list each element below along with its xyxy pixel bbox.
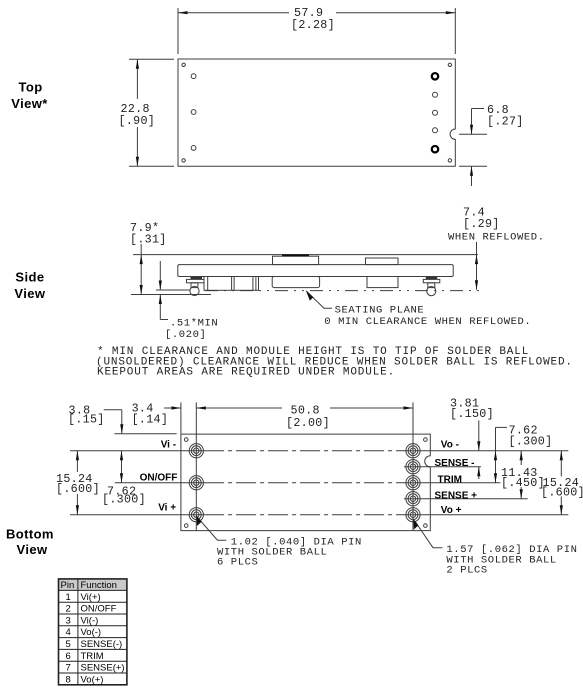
svg-text:Vo(+): Vo(+): [81, 674, 104, 685]
arrow 7.4 down: [475, 280, 478, 290]
svg-text:WHEN REFLOWED.: WHEN REFLOWED.: [448, 232, 545, 244]
arrowheads: [76, 11, 563, 529]
arrow 22.8 up: [136, 59, 139, 68]
left pin flange: [187, 279, 205, 282]
svg-text:Vi(-): Vi(-): [81, 615, 99, 626]
arrow 7.62 left down: [120, 473, 123, 483]
svg-text:Bottom: Bottom: [6, 527, 54, 542]
dim 50.8 segment A: [164, 407, 181, 409]
svg-text:3: 3: [66, 615, 71, 626]
pin 4 circles: [406, 444, 420, 458]
svg-text:[.29]: [.29]: [463, 217, 500, 231]
arrow 50.8 right: [404, 406, 414, 409]
svg-text:[.600]: [.600]: [541, 486, 583, 500]
dim 15.24 right upper shaft: [560, 451, 562, 477]
corner hole top-right: [448, 63, 451, 66]
dim 6.8 extension line at bottom edge: [459, 165, 487, 167]
left pin head: [191, 277, 203, 279]
bv corner hole bottom-left: [184, 524, 188, 528]
svg-text:6 PLCS: 6 PLCS: [217, 557, 258, 569]
arrow 11.43 up: [520, 451, 523, 461]
left edge extension line: [180, 402, 182, 433]
leader line pin Vi+: [198, 518, 227, 541]
dim 7.62 right elbow: [496, 426, 508, 428]
arrow 15.24 left down: [76, 505, 79, 515]
bottom component 4: [367, 277, 398, 288]
svg-text:Vi +: Vi +: [158, 503, 176, 514]
dim 7.62 left shaft: [121, 451, 123, 483]
dim 11.43 lower shaft: [520, 487, 522, 499]
arrow 7.4 up: [475, 255, 478, 265]
arrow 15.24 right up: [560, 451, 563, 461]
left column center line: [195, 402, 197, 530]
dim 22.8 line lower segment: [136, 127, 138, 166]
bottom component block: [204, 277, 259, 291]
svg-text:[.15]: [.15]: [68, 413, 105, 427]
svg-text:View: View: [14, 286, 45, 301]
top edge extension line: [114, 433, 176, 435]
svg-text:[.90]: [.90]: [119, 114, 156, 128]
svg-text:View: View: [17, 542, 48, 557]
pin 3 circles: [189, 508, 203, 522]
arrow seating leader: [306, 291, 313, 301]
svg-text:2 PLCS: 2 PLCS: [446, 565, 487, 577]
right pin hole 2: [433, 92, 438, 97]
right pin hole 3: [433, 110, 438, 115]
dim 15.24 left upper shaft: [76, 451, 78, 472]
svg-text:[2.00]: [2.00]: [286, 416, 330, 430]
top component 1: [273, 256, 319, 264]
svg-text:Pin: Pin: [61, 580, 75, 591]
pin 1 circles: [189, 444, 203, 458]
dim 22.8 line upper segment: [136, 59, 138, 99]
svg-text:Function: Function: [81, 580, 117, 591]
arrow 57.9 right: [446, 11, 456, 14]
svg-text:2: 2: [66, 604, 71, 615]
arrow 50.8 left: [196, 406, 206, 409]
corner hole bottom-left: [182, 159, 185, 162]
left pin hole 3: [191, 146, 196, 151]
dim 57.9 extension line left: [177, 8, 179, 54]
right solder ball: [427, 287, 436, 296]
arrow 57.9 left: [178, 11, 188, 14]
svg-text:SENSE -: SENSE -: [435, 458, 475, 469]
block divider 2a: [252, 277, 254, 291]
dim 7.62 right shaft: [495, 427, 497, 482]
dim 3.8 shaft: [121, 410, 123, 434]
right pin shaft: [428, 283, 435, 288]
arrow 7.9 down: [140, 285, 143, 295]
arrow leader Vi+: [197, 516, 202, 527]
dim 50.8 segment C: [330, 407, 413, 409]
dim 0.51 lower shaft: [159, 295, 161, 320]
pin 5 circles: [406, 460, 420, 474]
svg-text:[.300]: [.300]: [102, 493, 146, 507]
left solder ball: [190, 286, 199, 295]
block divider 1b: [233, 277, 235, 291]
dim 22.8 extension line top: [129, 58, 174, 60]
svg-text:Vi(+): Vi(+): [81, 592, 101, 603]
svg-text:TRIM: TRIM: [81, 651, 104, 662]
svg-text:[.020]: [.020]: [165, 329, 206, 341]
row4 line: [404, 498, 528, 500]
seating plane leader line: [306, 291, 332, 309]
svg-text:[.600]: [.600]: [56, 482, 100, 496]
top component 2: [366, 258, 399, 265]
arrow 0.51 down: [159, 281, 162, 291]
svg-text:0 MIN CLEARANCE WHEN REFLOWED.: 0 MIN CLEARANCE WHEN REFLOWED.: [324, 316, 531, 328]
bottom view body outline with notch: [181, 434, 430, 530]
svg-text:[2.28]: [2.28]: [291, 18, 335, 32]
arrow 0.51 up: [159, 295, 162, 305]
svg-text:1: 1: [66, 592, 71, 603]
pin 8 circles: [406, 508, 420, 522]
pin 7 circles: [406, 492, 420, 506]
dim 3.8 elbow: [104, 409, 122, 411]
bottom component 3: [272, 277, 319, 288]
arrow 22.8 down: [136, 157, 139, 167]
row3 line left: [115, 482, 204, 484]
dim 57.9 line left segment: [178, 12, 289, 14]
svg-text:Top: Top: [19, 80, 43, 95]
corner hole top-left: [182, 63, 185, 66]
table column divider: [77, 579, 79, 685]
top component 1 raised strip: [282, 254, 309, 256]
left pin shaft: [191, 283, 198, 288]
row3 line right: [405, 482, 500, 484]
pin 6 circles: [406, 476, 420, 490]
dim 57.9 extension line right: [454, 8, 456, 54]
svg-text:4: 4: [66, 627, 71, 638]
row5 line dashes: [204, 514, 405, 516]
arrow 7.62 left up: [120, 451, 123, 461]
row5 line left: [70, 514, 204, 516]
arrow 7.62 right up: [494, 451, 497, 461]
svg-text:[.300]: [.300]: [509, 435, 553, 449]
table row lines: [59, 590, 127, 673]
dim 50.8 segment B: [196, 407, 282, 409]
bv corner hole top-left: [184, 438, 188, 442]
arrow leader Vo+: [413, 519, 418, 530]
svg-text:Vo +: Vo +: [441, 505, 462, 516]
svg-text:[.27]: [.27]: [487, 115, 524, 129]
row1 line dashes: [204, 450, 405, 452]
top view body outline with notch: [178, 59, 455, 166]
svg-text:.51*MIN: .51*MIN: [170, 318, 218, 330]
dim 15.24 right lower shaft: [560, 497, 562, 515]
right pin hole 5 bold: [432, 146, 438, 152]
row1 line right: [405, 450, 568, 452]
arrow 7.62 right down: [494, 473, 497, 483]
dim 6.8 extension line at notch center: [459, 133, 487, 135]
module top extension line: [133, 254, 478, 256]
leader line pin Vo+: [415, 521, 443, 548]
left pin hole 1: [191, 74, 196, 79]
right pin hole 1 bold: [432, 73, 438, 79]
dim 6.8 elbow: [472, 108, 485, 110]
dim 15.24 left lower shaft: [76, 494, 78, 515]
row1 line left: [70, 450, 204, 452]
corner hole bottom-right: [448, 159, 451, 162]
svg-text:Vo(-): Vo(-): [81, 627, 102, 638]
dim 0.51 upper shaft: [159, 261, 161, 290]
bv corner hole top-right: [424, 438, 428, 442]
svg-text:[.31]: [.31]: [130, 233, 167, 247]
arrow 7.9 up: [140, 255, 143, 265]
arrow 6.8 down: [470, 125, 473, 135]
pin 2 circles: [189, 476, 203, 490]
svg-text:6: 6: [66, 651, 71, 662]
svg-text:5: 5: [66, 639, 71, 650]
dim 6.8 line lower shaft: [471, 166, 473, 186]
svg-text:Vo -: Vo -: [441, 440, 459, 451]
dim 0.51 elbow: [160, 319, 168, 321]
svg-text:ON/OFF: ON/OFF: [140, 473, 178, 484]
row2 line: [404, 466, 481, 468]
dim 7.9 shaft: [140, 244, 142, 295]
block divider 0: [207, 277, 209, 291]
svg-text:ON/OFF: ON/OFF: [81, 604, 117, 615]
dim 22.8 extension line bottom: [129, 165, 174, 167]
arrow 15.24 left up: [76, 451, 79, 461]
dim 7.4 shaft: [476, 242, 478, 290]
svg-text:[.150]: [.150]: [450, 407, 494, 421]
svg-text:[.14]: [.14]: [132, 413, 169, 427]
bv corner hole bottom-right: [424, 524, 428, 528]
arrow 3.8 down: [120, 424, 123, 434]
svg-text:SENSE(-): SENSE(-): [81, 639, 123, 650]
pcb body: [178, 265, 453, 277]
solder ball tip line: [131, 294, 211, 296]
dim 3.81 lower shaft: [478, 467, 480, 479]
component clearance line: [156, 289, 190, 291]
table header background: [59, 579, 127, 591]
row5 line right: [405, 514, 568, 516]
seating plane dash-dot line: [205, 290, 485, 292]
dim 3.81 upper shaft: [478, 421, 480, 451]
arrow 3.4 right: [171, 406, 181, 409]
svg-text:KEEPOUT AREAS ARE REQUIRED UND: KEEPOUT AREAS ARE REQUIRED UNDER MODULE.: [97, 367, 395, 379]
svg-text:View*: View*: [11, 96, 48, 111]
right pin head: [426, 277, 437, 279]
dim 11.43 upper shaft: [520, 451, 522, 465]
arrow 3.81 down: [477, 441, 480, 451]
dim 6.8 line upper shaft: [471, 109, 473, 135]
arrow 15.24 right down: [560, 505, 563, 515]
table outer border: [59, 579, 127, 685]
svg-text:[.450]: [.450]: [501, 476, 545, 490]
arrow 3.81 up: [477, 467, 480, 477]
right pin hole 4: [433, 128, 438, 133]
svg-text:SEATING PLANE: SEATING PLANE: [335, 305, 425, 317]
svg-text:SENSE(+): SENSE(+): [81, 663, 125, 674]
svg-text:SENSE +: SENSE +: [435, 490, 478, 501]
dim 57.9 line right segment: [336, 12, 455, 14]
right pin flange: [423, 279, 440, 282]
svg-text:8: 8: [66, 674, 71, 685]
left pin hole 2: [191, 110, 196, 115]
svg-text:Vi -: Vi -: [161, 440, 176, 451]
arrow 6.8 up: [470, 166, 473, 176]
svg-text:Side: Side: [15, 270, 44, 285]
svg-text:7: 7: [66, 663, 71, 674]
svg-text:TRIM: TRIM: [438, 475, 462, 486]
block divider 1a: [231, 277, 233, 291]
arrow 11.43 down: [520, 489, 523, 499]
block divider 2b: [255, 277, 257, 291]
right column center line: [412, 402, 414, 530]
row3 line dashes: [204, 482, 405, 484]
